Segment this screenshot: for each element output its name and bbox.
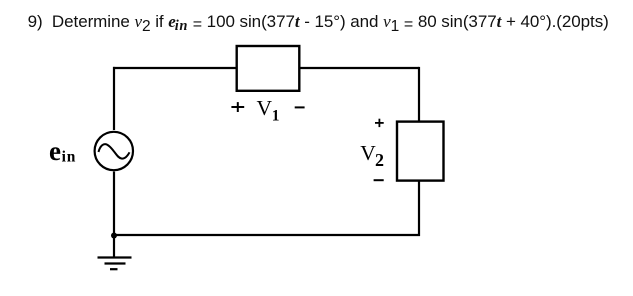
ac source ein circle [95,132,133,170]
component box V1 [237,46,300,91]
label: minus for V2 [374,179,384,181]
wire: right vertical upper (corner to V2 top) [418,67,420,121]
label: minus for V1 [295,106,305,108]
svg-text:1: 1 [272,108,280,125]
wire: top left horizontal (source top to V1 box) [113,67,236,69]
component box V2 [397,122,444,181]
svg-text:V: V [360,141,376,165]
wire: right vertical lower (V2 bottom to bottom wire) [418,181,420,236]
wire: top right horizontal (V1 box to right corner) [300,67,419,69]
problem statement text [28,12,609,32]
node: junction dot at ground [111,233,117,239]
svg-text:2: 2 [375,150,384,170]
svg-text:in: in [62,148,77,165]
svg-text:e: e [49,136,61,166]
wire: source bottom to ground node [113,172,115,237]
label: + for V2 [375,119,384,127]
wire: bottom horizontal [113,234,420,236]
sine wave inside source [99,144,130,158]
label: + for V1 [231,102,244,112]
wire: left vertical (top corner down to source) [113,67,115,130]
ground symbol [98,236,132,269]
svg-text:V: V [257,96,273,120]
